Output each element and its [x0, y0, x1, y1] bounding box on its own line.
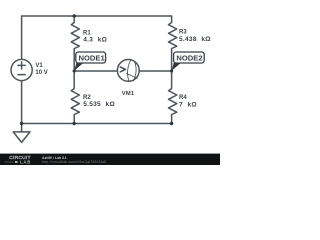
- node flag NODE1: [76, 52, 106, 63]
- node flag NODE2 tail: [172, 63, 182, 71]
- resistor R2: [71, 71, 79, 124]
- svg-text:NODE1: NODE1: [79, 53, 106, 62]
- junction bottom of R2: [73, 122, 76, 125]
- wire top rail: [22, 16, 172, 59]
- wire bottom rail: [22, 123, 172, 125]
- svg-text:5.535 kΩ: 5.535 kΩ: [83, 101, 115, 108]
- junction node B: [170, 69, 173, 72]
- junction top of R1: [73, 14, 76, 17]
- footer banner: [0, 154, 220, 165]
- svg-text:7 kΩ: 7 kΩ: [179, 102, 197, 109]
- svg-text:R4: R4: [179, 95, 187, 101]
- svg-text:VM1: VM1: [122, 91, 135, 97]
- svg-text:LAB: LAB: [20, 160, 31, 165]
- resistor R3: [169, 16, 177, 71]
- banner text: [42, 156, 106, 164]
- voltmeter VM1: [117, 60, 139, 82]
- svg-text:4.3 kΩ: 4.3 kΩ: [83, 37, 107, 44]
- svg-text:R3: R3: [179, 29, 187, 35]
- wire middle right: [139, 70, 171, 72]
- junction node A: [73, 69, 76, 72]
- resistor R4: [169, 71, 177, 124]
- svg-text:10 V: 10 V: [35, 70, 47, 76]
- svg-text:R2: R2: [83, 95, 91, 101]
- svg-text:V1: V1: [35, 63, 43, 69]
- node flag NODE1 tail: [74, 63, 84, 71]
- wire left bottom: [21, 81, 23, 124]
- svg-text:R1: R1: [83, 30, 91, 36]
- junction ground node: [20, 122, 23, 125]
- svg-text:http://circuitlab.com/c/6w7jqf: http://circuitlab.com/c/6w7jqf763h3fa8: [42, 160, 106, 164]
- junction bottom of R4: [170, 122, 173, 125]
- logo CIRCUIT LAB: [5, 155, 32, 164]
- resistor R1: [71, 16, 79, 71]
- node flag NODE2: [174, 52, 205, 63]
- ground: [13, 124, 30, 143]
- labels: [35, 29, 210, 108]
- voltage source V1: [11, 59, 32, 80]
- svg-text:5.438 kΩ: 5.438 kΩ: [179, 36, 211, 43]
- svg-text:NODE2: NODE2: [176, 53, 202, 62]
- wire middle left: [74, 70, 117, 72]
